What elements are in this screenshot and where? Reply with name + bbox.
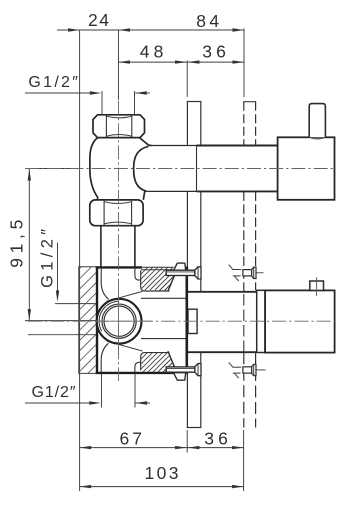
svg-text:48: 48	[140, 41, 164, 61]
dimension line 103	[80, 486, 244, 488]
max wall line dashed left upper	[243, 102, 245, 146]
max wall line dashed left middle	[243, 191, 245, 291]
handle block top right	[278, 137, 335, 200]
handle stub	[309, 104, 325, 138]
body outline bold left	[96, 266, 98, 373]
tee left contour	[90, 138, 98, 200]
extension line side port bottom	[28, 334, 97, 336]
lug head top	[174, 263, 186, 271]
chamber diagonal bottom	[107, 341, 143, 351]
break marks top right screw	[229, 265, 242, 281]
lug foot bottom	[174, 373, 186, 381]
extension line rough wall (left datum)	[79, 30, 81, 491]
extension line side port top	[55, 303, 112, 305]
max wall line dashed right middle	[255, 191, 257, 290]
body hatch band bottom	[125, 335, 210, 385]
dimension line 91,5 vertical	[28, 169, 30, 321]
band border bottom	[141, 353, 170, 371]
leader arrow G1/2 top left	[25, 92, 92, 94]
tee below socket	[143, 191, 145, 200]
dimension line 67 36	[80, 447, 244, 449]
body hatch band top	[125, 250, 215, 300]
extension line valve centerline top	[117, 30, 119, 100]
leader arrow G1/2 bottom right	[136, 402, 151, 404]
cartridge boss outer circle	[97, 299, 142, 344]
screw top right shaft	[243, 270, 252, 276]
handle stub seat arc	[309, 137, 325, 139]
wall hatch strip	[58, 248, 100, 455]
leader arrow G1/2 top right	[135, 92, 150, 94]
leader arrow G1/2 left	[57, 243, 59, 294]
inlet bore right wall	[135, 268, 141, 280]
top outlet pipe	[146, 146, 278, 190]
extension line thread right top	[134, 91, 136, 115]
body outline bold top	[96, 266, 142, 268]
extension line max wall bottom	[243, 430, 245, 491]
pipe spigot nub	[188, 309, 197, 333]
body outline bold right	[186, 267, 189, 374]
valve body fill	[97, 267, 187, 374]
svg-text:G1/2″: G1/2″	[39, 229, 57, 288]
dashed stud top cap	[243, 101, 256, 103]
body top step double line	[141, 266, 174, 268]
screw bottom left shaft	[166, 367, 195, 372]
outlet bore left wall	[101, 343, 108, 373]
centerline valve axis	[28, 320, 334, 322]
tee right shoulder	[139, 138, 151, 146]
svg-text:36: 36	[202, 41, 226, 61]
max wall line dashed left lower	[243, 352, 245, 427]
cartridge boss secondary arc	[99, 301, 119, 331]
tee socket arc	[134, 146, 149, 191]
tee body	[90, 138, 151, 200]
extension line valve axis left	[25, 320, 97, 322]
extension line thread left top	[101, 91, 103, 115]
chamber diagonal top	[107, 291, 143, 301]
cartridge ring inner	[104, 306, 134, 336]
extension line max wall top	[243, 29, 245, 98]
body outline bold bottom	[96, 372, 176, 374]
hex nut top	[93, 115, 145, 138]
screw bottom right shaft	[243, 367, 252, 373]
pipe union joint line	[196, 146, 198, 191]
mounting plate stud (solid)	[187, 102, 202, 428]
svg-text:91,5: 91,5	[7, 220, 27, 268]
extension line pipe axis left	[25, 168, 80, 170]
extension line min wall bottom	[186, 430, 188, 453]
lug slant bottom	[168, 351, 175, 367]
svg-text:G1/2″: G1/2″	[32, 384, 76, 401]
dimension line 24	[57, 29, 118, 31]
cartridge ring outer	[102, 304, 136, 338]
leader arrow G1/2 bottom left	[25, 402, 91, 404]
hex nut bottom flats	[103, 201, 105, 225]
right port bore bottom	[141, 338, 186, 340]
svg-text:36: 36	[204, 428, 228, 448]
volume control stub centerline	[316, 277, 318, 296]
extension line thread left bottom	[101, 374, 103, 408]
dimension line 84	[118, 29, 244, 31]
max wall line dashed left through pipe	[243, 294, 245, 352]
right port bore top	[141, 297, 186, 299]
svg-text:103: 103	[145, 463, 179, 483]
trim collar bottom right	[257, 290, 265, 352]
crosshair vertical	[117, 288, 119, 356]
centerline top pipe axis	[25, 168, 334, 170]
band border top	[141, 270, 170, 291]
extension line thread right bottom	[134, 374, 136, 408]
break marks bottom right screw	[229, 362, 242, 378]
max wall line dashed right lower	[255, 353, 257, 428]
volume control stub	[310, 281, 324, 290]
centerline vertical valve axis	[117, 101, 119, 381]
crosshair horizontal	[96, 320, 152, 322]
svg-text:24: 24	[88, 10, 109, 30]
inlet bore left wall	[101, 268, 108, 299]
max wall line dashed right upper	[255, 102, 257, 146]
screw bottom left head	[195, 364, 201, 376]
dimension line 48 36	[118, 61, 244, 63]
wall strip border	[79, 267, 97, 374]
hex nut top flats	[105, 115, 107, 137]
bottom outlet pipe	[188, 293, 257, 352]
hex nut bottom	[90, 200, 143, 226]
svg-text:84: 84	[196, 11, 219, 31]
screw top right head	[252, 267, 256, 278]
lug slant top	[168, 276, 175, 292]
screw top left head	[195, 267, 201, 279]
screw bottom right head	[252, 364, 256, 375]
extension line min wall top	[186, 61, 188, 98]
svg-text:67: 67	[120, 428, 143, 448]
riser pipe below nut	[100, 226, 102, 267]
svg-text:G1/2″: G1/2″	[28, 74, 78, 91]
screw top left shaft	[166, 270, 195, 275]
outlet bore right wall	[135, 362, 141, 373]
volume control block bottom right	[265, 290, 335, 352]
